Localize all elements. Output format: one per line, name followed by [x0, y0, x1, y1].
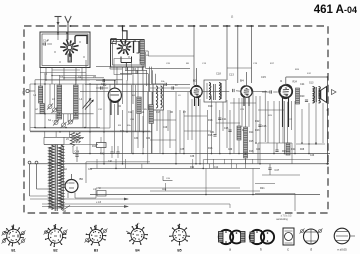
left verticals extra [29, 84, 31, 131]
capacitor C31 [213, 134, 216, 136]
anode feed to B5 [285, 77, 287, 85]
coupling capacitor C13 [232, 89, 234, 92]
svg-text:C13: C13 [229, 73, 234, 77]
hor runs mid extra [150, 119, 176, 121]
grid line with capacitor into B2 triode [96, 80, 115, 82]
svg-text:B3: B3 [94, 249, 98, 253]
cathode lead wires from K1 [45, 68, 47, 81]
svg-text:C38: C38 [190, 156, 195, 158]
IF coupling coil L7 [140, 40, 145, 64]
capacitor C48 [75, 154, 78, 156]
padder trimmer C7 [54, 121, 58, 125]
aerial coil L2 [40, 104, 44, 114]
svg-text:C41: C41 [108, 160, 113, 163]
mid verticals extra [147, 86, 149, 110]
sub-screen box below K2 [114, 59, 132, 75]
svg-text:B4: B4 [135, 249, 139, 253]
junction dots on buses [89, 153, 91, 155]
coil box S7 [153, 84, 164, 110]
earth terminal E1 [65, 16, 68, 23]
oscillator coil L4 [74, 85, 79, 119]
svg-text:C46: C46 [310, 155, 315, 157]
svg-text:C: C [22, 92, 24, 95]
svg-text:11·12: 11·12 [68, 121, 74, 123]
svg-text:C26: C26 [262, 125, 267, 128]
padder trimmer C8 [69, 120, 73, 124]
svg-text:C40: C40 [256, 149, 261, 151]
svg-text:e ±0.05: e ±0.05 [337, 248, 347, 252]
valve base diagram B2 [48, 229, 62, 243]
junction dots left assembly [57, 33, 59, 35]
stepped feed wire K2 [123, 26, 128, 40]
resistor R29 [275, 149, 278, 151]
capacitor C28 [305, 99, 308, 101]
valve base diagram B1 [7, 229, 21, 243]
svg-text:R14: R14 [249, 131, 254, 134]
power transformer T1 core [54, 145, 56, 212]
svg-text:B1: B1 [11, 249, 15, 253]
HT feeder wires from border [193, 26, 195, 85]
aerial coil L1 [39, 86, 43, 103]
svg-text:C43: C43 [88, 169, 93, 171]
grid cap C1a [43, 42, 45, 45]
wave band switch S1 contacts [48, 105, 52, 109]
shield can K1 [40, 32, 90, 68]
left assembly wiring [35, 79, 123, 81]
IF transformer core [213, 84, 215, 100]
wires below K2 [116, 67, 118, 85]
signal path wires [80, 91, 191, 93]
tie wire under output stage [296, 143, 325, 145]
right cluster wires [258, 142, 292, 144]
svg-text:C24: C24 [300, 83, 305, 86]
svg-text:5MB: 5MB [162, 189, 167, 191]
resistor chain R14 R15 R16 [244, 127, 248, 158]
capacitor C26 [258, 124, 261, 126]
svg-text:C16: C16 [224, 127, 229, 130]
svg-text:S13: S13 [309, 82, 314, 85]
connector diagram c [283, 228, 294, 245]
capacitor C21 [218, 117, 221, 119]
wires leaving bottom area [205, 188, 207, 195]
IF transformer primary winding [209, 83, 211, 100]
capacitor C16 [228, 129, 231, 131]
HT bus upper [73, 153, 330, 155]
svg-text:C33: C33 [134, 138, 139, 140]
svg-text:B4: B4 [240, 79, 244, 83]
valve B3 (IF amplifier) [191, 86, 202, 97]
svg-text:R20: R20 [300, 95, 305, 98]
svg-text:d: d [310, 248, 312, 252]
feed wire from border to K2 [122, 26, 124, 40]
speaker triangle marker [332, 90, 337, 95]
svg-text:± 7.0 ± 0.5: ± 7.0 ± 0.5 [281, 216, 293, 218]
svg-text:7·S1·9: 7·S1·9 [52, 121, 59, 123]
switch S6 arrow [62, 206, 70, 211]
valve B4 (detector) [241, 86, 252, 97]
shield can K2 [111, 40, 145, 68]
resistor R10 [237, 126, 241, 140]
chassis dashed border [24, 26, 328, 213]
svg-text:C#E: C#E [166, 178, 171, 180]
padder trimmer C9 [62, 123, 66, 127]
svg-text:C34: C34 [146, 138, 151, 140]
svg-text:R28: R28 [300, 149, 305, 151]
aerial terminal A1 [57, 17, 59, 33]
svg-text:B2: B2 [53, 249, 57, 253]
power section wiring [64, 144, 98, 146]
fuse box [97, 191, 106, 197]
bus tick wires between lower rails [96, 159, 98, 168]
svg-text:C12: C12 [128, 112, 133, 114]
valve base diagram B4 [131, 228, 144, 241]
resistor R20 [296, 88, 300, 104]
svg-text:R19: R19 [208, 105, 213, 108]
chassis earth bus [30, 163, 329, 165]
svg-text:B5: B5 [177, 249, 181, 253]
bus line bottom [42, 203, 230, 205]
oscillator tracking coil L5 [70, 132, 74, 147]
B2 area verticals [126, 80, 128, 132]
svg-text:C39: C39 [228, 149, 233, 151]
switch S1 arrow contacts right group [83, 100, 91, 109]
svg-text:B6: B6 [80, 177, 84, 181]
connector diagram b [250, 230, 264, 244]
svg-text:C1a: C1a [43, 39, 48, 43]
dial lamp lead arrows [30, 198, 128, 200]
IF transformer S9/S10 box [204, 80, 226, 102]
terminal C on left border [26, 89, 29, 92]
bus line lower [90, 194, 320, 196]
svg-text:C19: C19 [163, 127, 168, 129]
svg-text:R24: R24 [293, 81, 298, 84]
capacitor C47 electrolytic [268, 167, 271, 169]
bus y168 wire [90, 167, 260, 169]
grid coupling caps [164, 83, 166, 86]
resistor R4 stack [137, 97, 141, 114]
svg-text:C18: C18 [216, 72, 221, 76]
power transformer T1 primary [49, 145, 54, 210]
rectifier valve B6 [65, 180, 78, 193]
svg-text:aansluiting: aansluiting [276, 218, 288, 221]
svg-text:R15: R15 [208, 134, 213, 137]
svg-text:R29: R29 [282, 150, 287, 153]
valve base diagram B3 [89, 229, 102, 242]
tracking coil L5b [77, 132, 81, 144]
svg-text:≤ L6: ≤ L6 [96, 200, 102, 204]
svg-text:R18: R18 [208, 119, 213, 122]
valve base diagram B5 [173, 228, 186, 241]
svg-text:461 A-04: 461 A-04 [314, 4, 357, 16]
middle section vertical wires [151, 92, 153, 154]
IF transformer secondary winding [219, 83, 221, 100]
connector diagram e [334, 228, 350, 244]
mains plug pins [28, 161, 31, 164]
oscillator coil L3 [57, 85, 62, 119]
HT rail [327, 77, 329, 164]
bus line mid [204, 159, 310, 161]
transformer top connections [44, 144, 64, 146]
smoothing caps C41 C42 [110, 151, 113, 153]
svg-text:R16: R16 [208, 147, 213, 150]
resistor R5 stack [149, 105, 153, 124]
tone link wire [162, 176, 164, 181]
connector diagram d [304, 229, 319, 244]
valve B5 (output pentode) [279, 85, 292, 98]
trimmer box on K2 [111, 39, 116, 44]
signal bundle wires [85, 83, 190, 85]
mains wires to transformer [30, 195, 49, 197]
valve B1 (ECH4 frequency changer) [66, 44, 73, 51]
svg-text:C47: C47 [275, 169, 280, 172]
svg-text:C15: C15 [261, 75, 266, 79]
coupling caps row [135, 70, 137, 73]
coupling wires can2 to IF coil [125, 69, 147, 71]
bus y191 wire [150, 190, 260, 192]
output transformer S13 [313, 87, 315, 104]
grid capacitor C22 [269, 90, 271, 93]
resistor R13 box [97, 143, 107, 148]
resistor R24 [286, 143, 290, 155]
svg-text:C35: C35 [180, 149, 185, 151]
svg-text:R21: R21 [260, 187, 265, 190]
connector diagram a [219, 230, 233, 244]
heater bus [96, 187, 240, 189]
grid cap hook wire K1 [75, 36, 87, 45]
svg-text:R16: R16 [249, 150, 254, 153]
can interior dots [47, 39, 48, 40]
svg-text:a: a [229, 248, 231, 252]
loudspeaker [321, 87, 327, 103]
upper area horizontals extra [46, 79, 90, 81]
valve B2 triode section [108, 88, 121, 102]
svg-text:C31: C31 [210, 131, 215, 134]
left band bus wires [36, 113, 94, 115]
svg-text:R15: R15 [249, 140, 254, 143]
power transformer T1 secondary [59, 145, 64, 210]
svg-text:b: b [260, 248, 262, 252]
valve B2 pentode section [121, 44, 128, 51]
